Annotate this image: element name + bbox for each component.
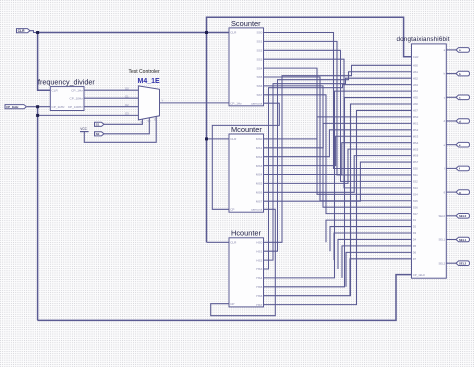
wire display output 7 (446, 215, 456, 217)
wire CLR down-left branch to frequency_divider CLR (38, 33, 51, 91)
svg-text:Test Controler: Test Controler (129, 69, 160, 75)
output pin b (456, 71, 470, 76)
output pin SEL0 (456, 214, 470, 219)
svg-text:HS1: HS1 (256, 249, 262, 253)
svg-text:Scounter: Scounter (231, 19, 261, 28)
svg-text:D2: D2 (125, 103, 129, 107)
svg-text:HS4: HS4 (413, 89, 419, 93)
wire display output 0 (446, 49, 456, 51)
wire CP_1kHz branch to mux input IN3 (38, 114, 139, 116)
wire display output 9 (446, 262, 456, 264)
svg-text:MS7: MS7 (256, 199, 263, 203)
wire display output 6 (446, 191, 456, 193)
wire HS0 Hcounter to display (264, 65, 412, 242)
wire MS1 Mcounter to display (264, 123, 412, 147)
input pin S1 (95, 122, 105, 126)
junction CLR at left trunk (36, 31, 39, 34)
wire bus feed row25 to display (330, 227, 412, 252)
svg-text:d: d (459, 119, 461, 123)
display driver U2 dongtaixianshi6bit (397, 36, 450, 278)
svg-text:MS5: MS5 (413, 147, 419, 151)
wire Scounter carryout to Mcounter CP (212, 103, 279, 209)
svg-text:CP_100Hz: CP_100Hz (68, 105, 83, 109)
svg-text:D5: D5 (413, 244, 417, 248)
svg-text:SS4: SS4 (256, 66, 262, 70)
svg-text:HS2: HS2 (413, 76, 419, 80)
svg-text:MS1: MS1 (413, 121, 419, 125)
junction CP_1kHz at mux branch (36, 114, 39, 117)
svg-text:SEL2: SEL2 (439, 261, 446, 265)
svg-text:Hcounter: Hcounter (231, 229, 262, 238)
wire SS1 Scounter to display (264, 41, 412, 175)
svg-text:CP: CP (230, 302, 234, 306)
multiplexer U1 M4_1E (Test Controler) (125, 69, 163, 124)
svg-text:HS6: HS6 (413, 102, 419, 106)
counter S1 Scounter (229, 19, 264, 106)
svg-text:CLR: CLR (230, 137, 237, 141)
svg-text:S1: S1 (96, 123, 100, 127)
svg-text:SS7: SS7 (256, 93, 262, 97)
svg-text:CP_1kHz: CP_1kHz (6, 105, 19, 109)
svg-text:CLR: CLR (413, 55, 419, 59)
output pin d (456, 119, 470, 124)
output pin c (456, 95, 470, 100)
svg-text:SEL1: SEL1 (439, 238, 446, 242)
svg-text:SS6: SS6 (256, 84, 262, 88)
svg-text:SS6: SS6 (413, 205, 419, 209)
svg-text:carryout: carryout (251, 208, 262, 212)
wire SS6 Scounter to display (264, 86, 412, 207)
wire CP_1kHz bottom run to dongtaixianshi6bit CP input (38, 275, 412, 321)
wire MS6 Mcounter to display (264, 156, 412, 193)
svg-text:HS5: HS5 (413, 96, 419, 100)
svg-text:CP_1kHz: CP_1kHz (52, 105, 66, 109)
svg-text:HS6: HS6 (256, 294, 262, 298)
svg-text:SS5: SS5 (256, 75, 262, 79)
svg-text:M4_1E: M4_1E (138, 78, 161, 85)
svg-text:D3: D3 (125, 112, 129, 116)
svg-text:SS3: SS3 (413, 186, 419, 190)
svg-text:CLR: CLR (230, 241, 237, 245)
svg-text:MS6: MS6 (256, 191, 263, 195)
svg-text:SS1: SS1 (256, 40, 262, 44)
svg-text:CP_1Hz: CP_1Hz (71, 88, 83, 92)
svg-text:HS0: HS0 (413, 63, 419, 67)
svg-text:MS0: MS0 (256, 137, 263, 141)
counter M1 Mcounter (229, 125, 264, 212)
wire display output 1 (446, 73, 456, 75)
svg-text:D7: D7 (413, 257, 417, 261)
wire HS4 Hcounter to display (264, 91, 412, 278)
input pin S0 (95, 132, 105, 136)
svg-text:dongtaixianshi6bit: dongtaixianshi6bit (397, 36, 450, 43)
svg-text:SS1: SS1 (413, 173, 419, 177)
svg-text:CP: CP (230, 208, 234, 212)
svg-text:Mcounter: Mcounter (231, 125, 262, 134)
wire CP_1Hz divider to mux (84, 89, 138, 91)
svg-text:CP_10Hz: CP_10Hz (70, 96, 84, 100)
wire display output 2 (446, 96, 456, 98)
output pin f (456, 166, 470, 171)
wire MS0 Mcounter to display (264, 117, 412, 139)
output pin g (456, 190, 470, 195)
svg-text:HS7: HS7 (413, 109, 419, 113)
wire SS2 Scounter to display (264, 50, 412, 181)
svg-text:CLR: CLR (18, 29, 26, 33)
wire MS2 Mcounter to display (264, 130, 412, 157)
svg-text:MS4: MS4 (413, 141, 419, 145)
wire mux output to Scounter CP_1Hz (160, 102, 230, 104)
svg-text:D6: D6 (413, 250, 417, 254)
svg-text:CP_1Hz: CP_1Hz (230, 101, 242, 105)
svg-text:MS0: MS0 (413, 115, 419, 119)
wire CLR top distribution line to dongtaixianshi6bit CLR (207, 17, 412, 57)
wire CLR junction right to Scounter CLR input (38, 32, 229, 34)
wire bus feed row30 to display (350, 259, 412, 296)
svg-text:SS2: SS2 (413, 180, 419, 184)
wire SS4 Scounter to display (264, 68, 412, 194)
wire CLR branch to Hcounter CLR (207, 241, 230, 243)
svg-text:SS3: SS3 (256, 57, 262, 61)
svg-text:HS3: HS3 (413, 83, 419, 87)
wire SS5 Scounter to display (264, 77, 412, 201)
svg-text:carryout: carryout (251, 101, 262, 105)
svg-text:MS5: MS5 (256, 182, 263, 186)
wire display output 4 (446, 144, 456, 146)
svg-text:SS5: SS5 (413, 199, 419, 203)
svg-text:MS1: MS1 (256, 146, 263, 150)
wire HS3 Hcounter to display (264, 85, 412, 269)
wire bus feed row26 to display (334, 233, 412, 260)
svg-text:MS4: MS4 (256, 173, 263, 177)
output pin a (456, 48, 470, 53)
svg-text:SEL0: SEL0 (439, 214, 446, 218)
svg-text:D1: D1 (125, 94, 129, 98)
output pin SEL1 (456, 237, 470, 242)
wire VCC to mux enable (84, 116, 156, 142)
wire bus feed row29 to display (346, 252, 412, 286)
input pin CLR (17, 29, 31, 33)
wire display output 3 (446, 120, 456, 122)
svg-text:g: g (459, 190, 461, 194)
wire display output 8 (446, 239, 456, 241)
wire bus feed row24 to display (326, 220, 412, 242)
wire switch S1 to mux select (104, 119, 142, 124)
svg-text:CLR: CLR (52, 88, 59, 92)
svg-text:SS7: SS7 (413, 212, 419, 216)
wire CP_1kHz pin to frequency_divider input (27, 106, 50, 108)
wire CP_100Hz divider to mux (84, 106, 138, 108)
wire CP_1kHz trunk down (37, 107, 39, 321)
output pin SEL2 (456, 261, 470, 266)
wire HS6 Hcounter to display (264, 104, 412, 296)
wire CLR mid trunk down (206, 33, 208, 243)
wire SS7 Scounter to display (264, 95, 412, 214)
wire CP_10Hz divider to mux (84, 97, 138, 99)
svg-text:HS4: HS4 (256, 276, 262, 280)
svg-text:SEL2: SEL2 (459, 262, 467, 266)
wire HS2 Hcounter to display (264, 78, 412, 260)
wire MS4 Mcounter to display (264, 143, 412, 175)
wire SS0 Scounter to display (264, 33, 412, 169)
svg-text:HS7: HS7 (256, 303, 262, 307)
wire HS7 Hcounter to display (264, 110, 412, 304)
svg-text:HS0: HS0 (256, 241, 262, 245)
svg-text:MS2: MS2 (413, 128, 419, 132)
wire SS3 Scounter to display (264, 59, 412, 188)
wire bus feed row28 to display (342, 246, 412, 278)
svg-text:SS0: SS0 (413, 167, 419, 171)
svg-text:MS3: MS3 (256, 164, 263, 168)
wire MS5 Mcounter to display (264, 149, 412, 183)
svg-text:CLR: CLR (230, 31, 237, 35)
svg-text:f: f (459, 167, 460, 171)
wire MS3 Mcounter to display (264, 136, 412, 165)
svg-text:HS3: HS3 (256, 267, 262, 271)
svg-text:D3: D3 (413, 231, 417, 235)
svg-text:MS2: MS2 (256, 155, 263, 159)
wire CLR branch to Mcounter CLR (207, 138, 230, 140)
svg-text:HS1: HS1 (413, 70, 419, 74)
wire display output 5 (446, 167, 456, 169)
svg-text:b: b (459, 72, 461, 76)
wire bus feed row27 to display (338, 239, 412, 269)
wire CLR pin to junction (30, 31, 38, 33)
wire Mcounter carryout to Hcounter CP (211, 209, 276, 315)
svg-text:CP_1kHz: CP_1kHz (413, 273, 426, 277)
svg-text:Y: Y (162, 99, 164, 103)
power VCC symbol (80, 127, 89, 132)
junction CLR at mid trunk (205, 31, 208, 34)
svg-text:SS0: SS0 (256, 31, 262, 35)
svg-text:S0: S0 (96, 132, 100, 136)
svg-text:SEL0: SEL0 (459, 214, 467, 218)
svg-text:SEL1: SEL1 (459, 238, 467, 242)
svg-text:HS5: HS5 (256, 285, 262, 289)
svg-text:D2: D2 (413, 225, 417, 229)
svg-text:frequency_divider: frequency_divider (38, 77, 95, 86)
svg-text:MS6: MS6 (413, 154, 419, 158)
input pin CP_1kHz (5, 105, 27, 109)
svg-text:D0: D0 (125, 86, 129, 90)
wire MS7 Mcounter to display (264, 162, 412, 201)
svg-text:D1: D1 (413, 218, 417, 222)
svg-text:SS2: SS2 (256, 49, 262, 53)
svg-text:SS4: SS4 (413, 192, 419, 196)
svg-text:D4: D4 (413, 238, 417, 242)
junction CLR at Mcounter branch (205, 137, 208, 140)
frequency_divider F1 (38, 77, 95, 110)
output pin e (456, 142, 470, 147)
wire switch S0 to mux select (104, 118, 149, 134)
svg-text:MS3: MS3 (413, 134, 419, 138)
wire HS1 Hcounter to display (264, 72, 412, 251)
svg-text:MS7: MS7 (413, 160, 419, 164)
wire HS5 Hcounter to display (264, 98, 412, 287)
junction CP_1kHz at pin (36, 105, 39, 108)
counter H1 Hcounter (229, 229, 264, 307)
svg-text:HS2: HS2 (256, 258, 262, 262)
svg-text:VCC: VCC (80, 127, 87, 131)
